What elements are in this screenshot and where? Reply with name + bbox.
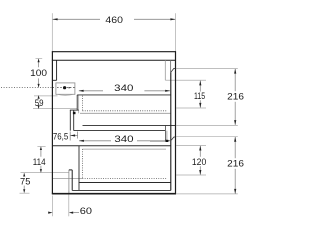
drawer1 back bracket vertical — [76, 95, 78, 110]
drawer1 box dotted back — [82, 96, 84, 111]
drawer2 back bracket vertical — [78, 146, 80, 191]
cabinet bottom thick — [52, 193, 176, 195]
bottom step: outer vertical — [68, 170, 70, 194]
svg-text:340: 340 — [114, 134, 133, 144]
top panel bottom edge — [52, 59, 176, 61]
svg-text:59: 59 — [35, 98, 44, 108]
drawer1 slide gray line — [80, 112, 171, 114]
dimension line 100 — [38, 59, 40, 67]
dimension line 216 upper — [234, 69, 236, 91]
bottom rail dark line — [72, 189, 171, 191]
right extension line top of front1 (y68.6) — [176, 68, 238, 70]
rail end vertical — [164, 125, 166, 140]
drawer1 slide block: top rail lines between drawers — [83, 124, 176, 126]
svg-text:460: 460 — [105, 15, 123, 25]
svg-text:340: 340 — [114, 83, 133, 93]
svg-text:60: 60 — [80, 206, 92, 216]
left wall outer — [51, 51, 53, 194]
drawer2 box dotted back — [81, 149, 83, 178]
extension line top of 59 — [34, 95, 58, 97]
dimension line 60 — [73, 212, 79, 214]
drawer2 box top gray line — [82, 148, 166, 150]
bracket bottom arc — [57, 94, 74, 95]
rail end vertical 2 — [166, 131, 168, 141]
svg-text:120: 120 — [192, 157, 206, 167]
right extension line top of 120 — [176, 145, 206, 147]
front1 top edge — [174, 67, 176, 69]
drawer2 bottom gray line left — [53, 178, 83, 180]
extension line bottom of 59 — [33, 108, 77, 110]
drawer2 compartment top line — [52, 145, 170, 147]
drawer1 compartment top line — [77, 94, 171, 96]
bracket dot — [63, 86, 66, 89]
dimension line 120 — [199, 146, 201, 157]
bumper square back — [73, 112, 76, 114]
right extension line top of front2 — [176, 136, 238, 138]
extension line top of 100 — [36, 58, 43, 60]
bracket centerline dashes inside — [57, 87, 75, 89]
extension line bottom of 114 / top of 75 — [21, 172, 69, 174]
svg-text:115: 115 — [194, 91, 205, 101]
right front inner face upper (groove) — [170, 60, 172, 72]
bottom step: inner vertical — [71, 170, 73, 191]
dimension line 59 — [38, 95, 40, 98]
right extension line bottom of front1 — [176, 125, 238, 127]
back bracket verticals — [69, 110, 71, 131]
dimension line 340 top — [79, 90, 103, 92]
extension line left of 460 — [51, 13, 53, 51]
extension line top of 114 — [37, 146, 45, 148]
extension line bottom left of 60 — [52, 196, 54, 217]
right extension line bottom (y193.9) — [176, 193, 238, 195]
drawer2 front attach gray line — [150, 140, 166, 142]
drawer1 side gray vertical — [164, 60, 166, 80]
front2 top edge — [174, 136, 176, 138]
left wall inner — [56, 60, 58, 80]
dimension line 460 — [53, 18, 100, 20]
svg-text:100: 100 — [30, 68, 47, 78]
extension line bottom of 75 — [20, 192, 30, 194]
J-groove diagonal drawer2 — [171, 137, 174, 140]
drawer2 box dotted bottom — [82, 178, 167, 180]
extension line right of 460 — [175, 13, 177, 51]
bracket mini arrow — [69, 87, 72, 89]
right front inner face — [170, 72, 172, 190]
left wall cap — [52, 79, 56, 81]
svg-text:76,5: 76,5 — [53, 132, 68, 142]
right extension line bottom of 120 — [176, 174, 206, 176]
drawer1 box dotted bottom — [83, 110, 168, 112]
drawer2 bottom dark line — [79, 182, 171, 184]
bumper square lower front — [166, 140, 169, 142]
svg-text:75: 75 — [20, 176, 30, 186]
back bracket cap — [70, 109, 79, 111]
dimension line 114 — [40, 147, 42, 157]
drawer1 back gray vertical — [78, 95, 80, 113]
dimension line 340 bottom — [79, 140, 111, 142]
right front outer face — [175, 51, 177, 194]
dimension 76,5 ticks and arrow — [69, 132, 71, 141]
svg-text:216: 216 — [227, 159, 244, 169]
top panel top edge — [52, 51, 176, 53]
mounting bracket box — [56, 83, 75, 94]
svg-text:216: 216 — [227, 92, 244, 102]
right extension line bottom of 115 — [176, 107, 206, 109]
centerline dotted through bracket — [1, 87, 75, 89]
svg-text:114: 114 — [33, 157, 46, 167]
right extension line y80.2 drawer1 slide top — [165, 79, 206, 81]
J-groove diagonal drawer1 — [171, 68, 174, 72]
dimension line 75 — [23, 173, 25, 177]
extension line bottom right of 60 — [68, 191, 70, 216]
dimension line 115 — [199, 81, 201, 92]
bottom step: cap — [69, 169, 72, 171]
dimension line 216 lower — [234, 137, 236, 158]
